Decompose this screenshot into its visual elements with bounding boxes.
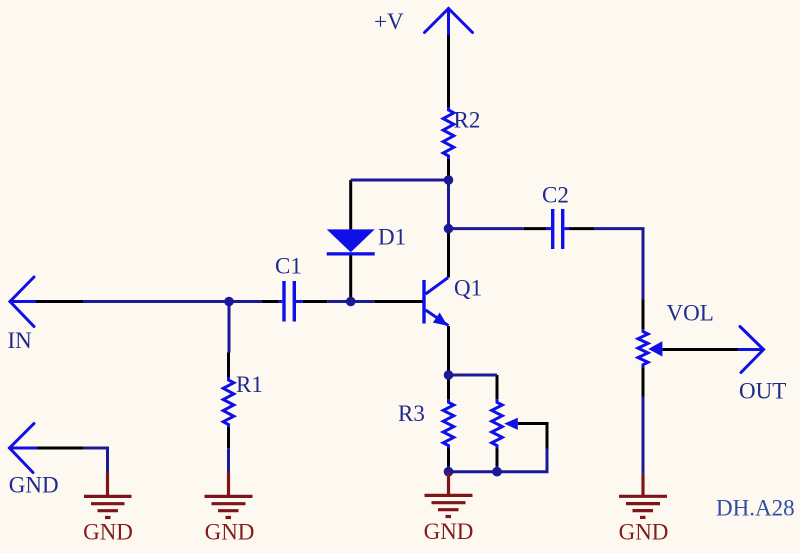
svg-text:GND: GND: [83, 520, 133, 545]
svg-text:IN: IN: [8, 328, 33, 353]
svg-text:D1: D1: [378, 225, 406, 250]
svg-text:VOL: VOL: [667, 301, 714, 326]
svg-text:C2: C2: [542, 183, 569, 208]
svg-text:C1: C1: [275, 254, 302, 279]
svg-text:R3: R3: [398, 401, 425, 426]
svg-text:GND: GND: [9, 473, 59, 498]
svg-text:DH.A28: DH.A28: [716, 496, 795, 521]
svg-text:+V: +V: [374, 9, 404, 34]
svg-text:GND: GND: [424, 519, 474, 544]
svg-text:Q1: Q1: [454, 276, 482, 301]
svg-text:OUT: OUT: [739, 379, 786, 404]
svg-text:GND: GND: [205, 520, 255, 545]
svg-text:R1: R1: [236, 372, 263, 397]
svg-text:R2: R2: [454, 108, 481, 133]
svg-text:GND: GND: [619, 520, 669, 545]
